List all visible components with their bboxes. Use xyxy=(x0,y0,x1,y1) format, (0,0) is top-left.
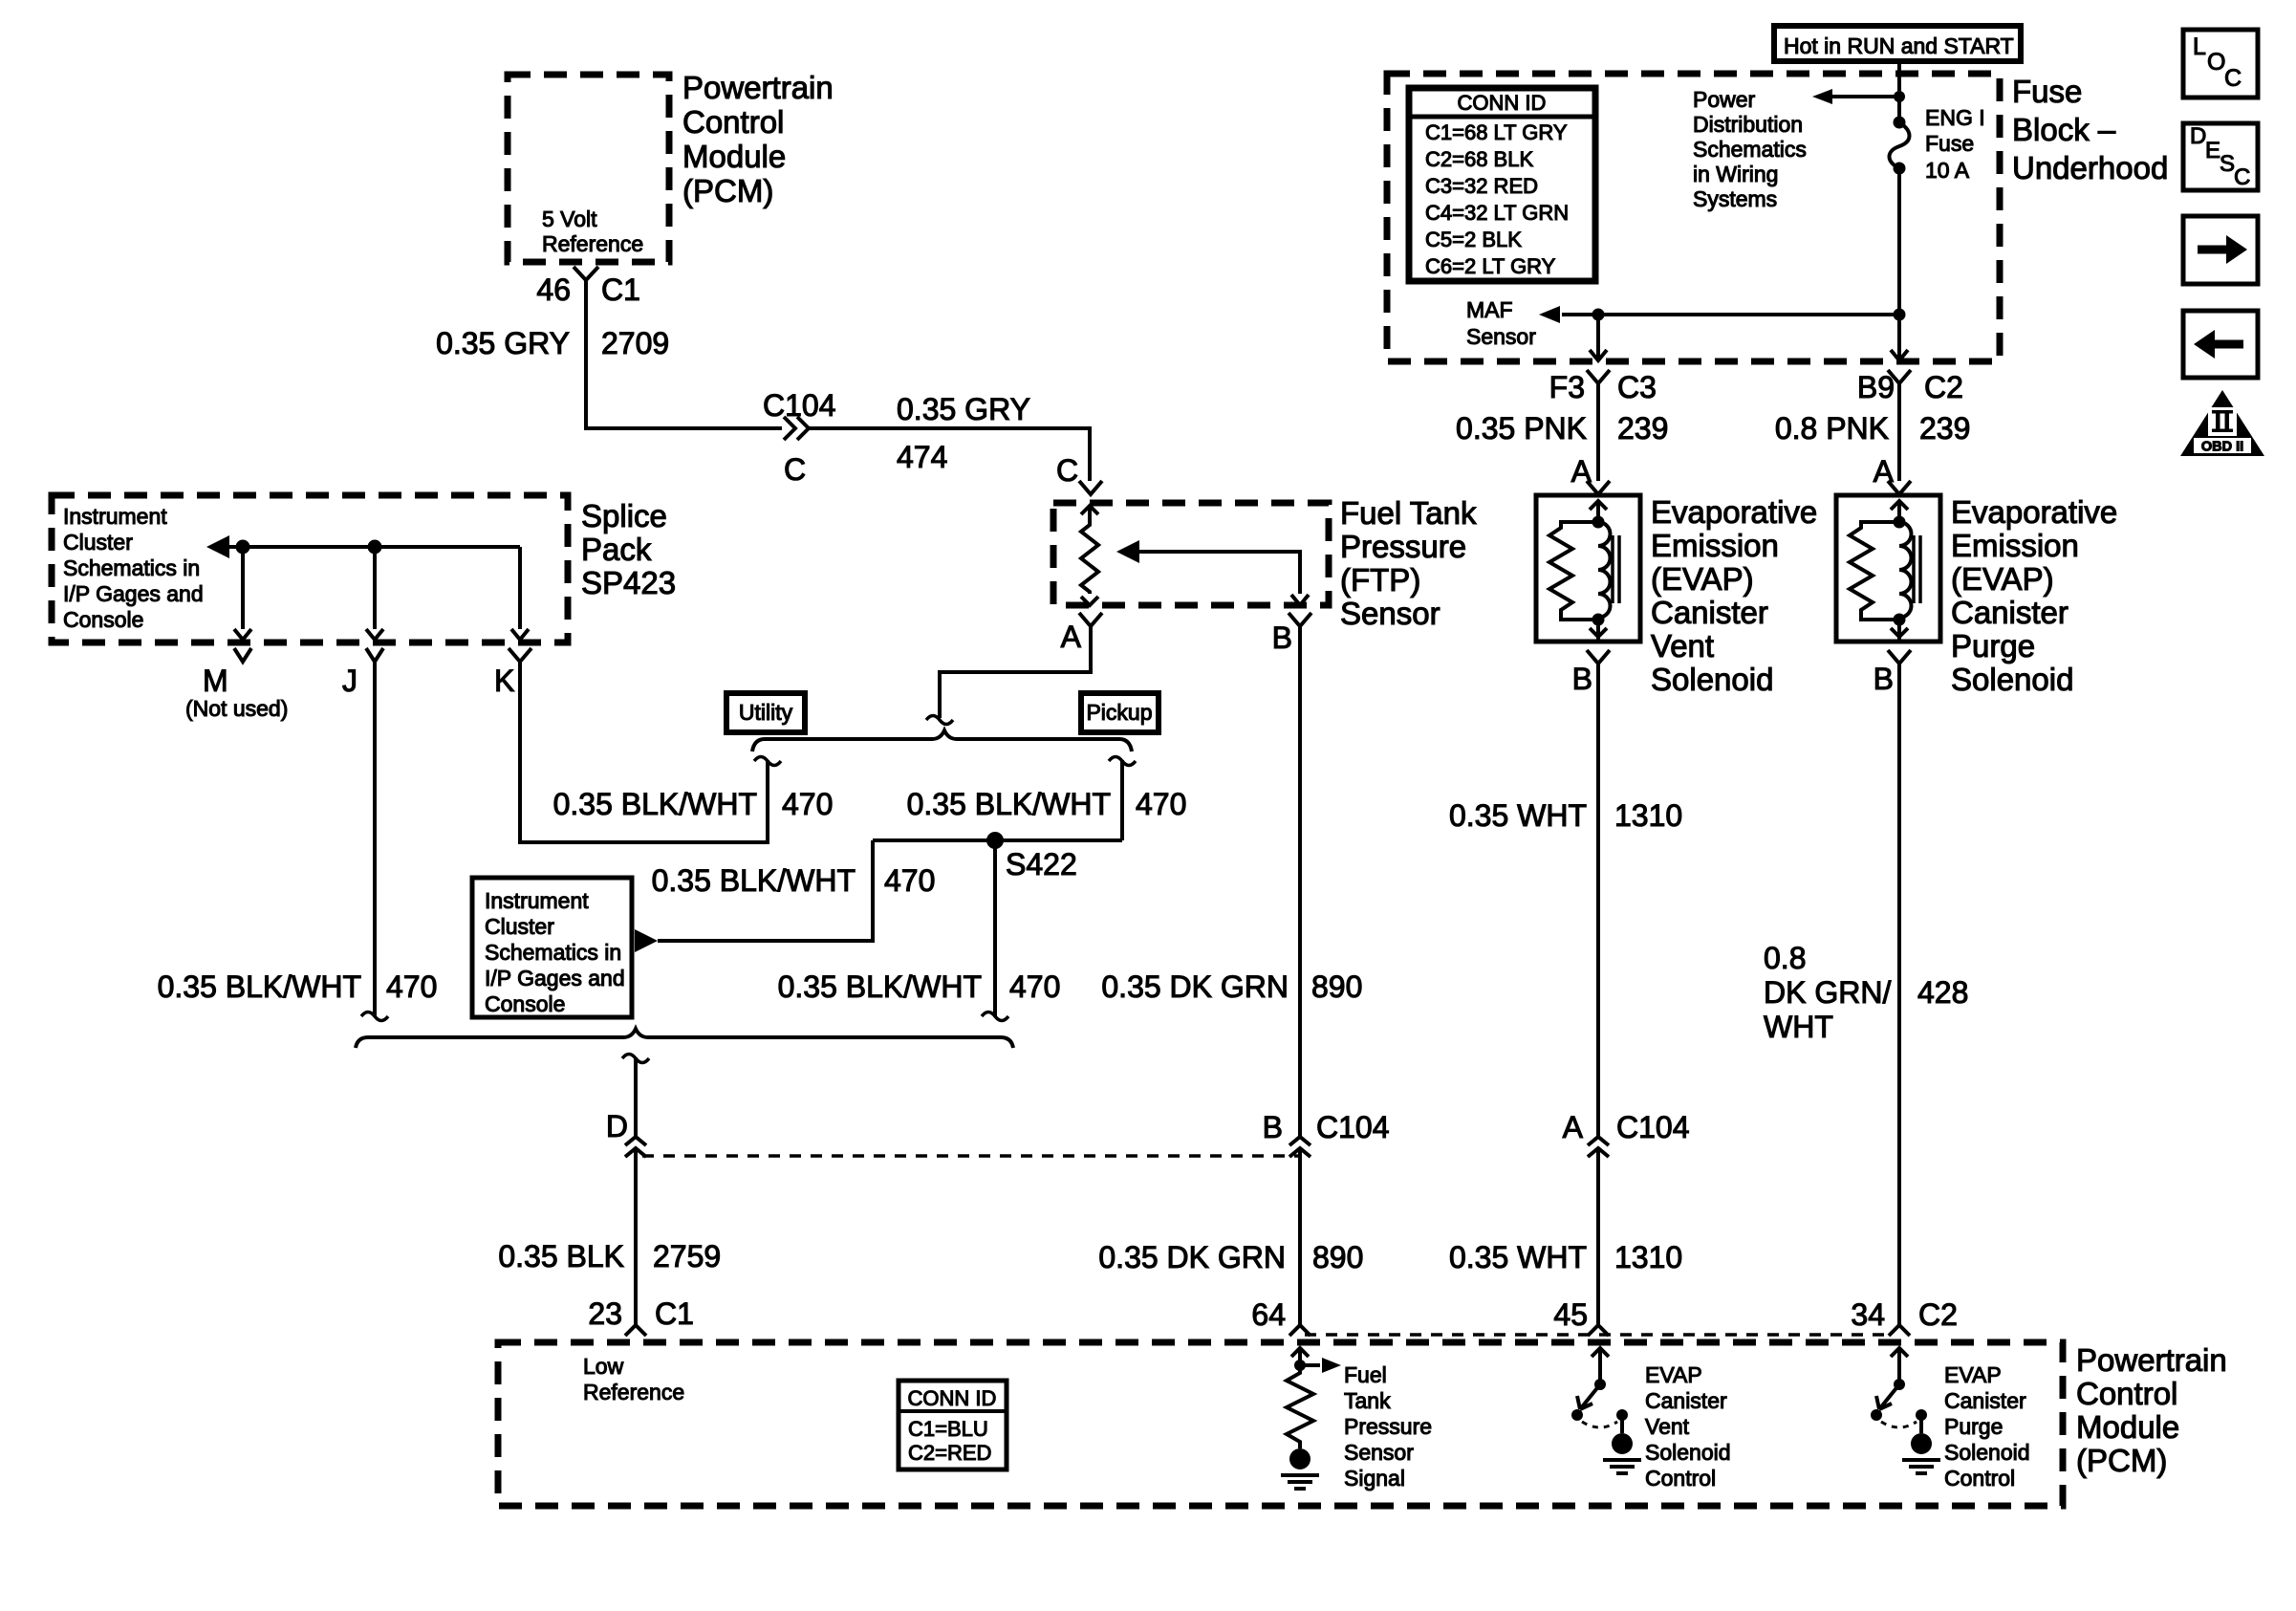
svg-text:C104: C104 xyxy=(763,388,836,423)
svg-text:Sensor: Sensor xyxy=(1344,1440,1414,1465)
svg-text:Reference: Reference xyxy=(542,231,643,256)
svg-text:C5=2 BLK: C5=2 BLK xyxy=(1425,228,1522,251)
svg-text:EVAP: EVAP xyxy=(1645,1362,1702,1387)
svg-text:(FTP): (FTP) xyxy=(1340,562,1420,598)
svg-text:45: 45 xyxy=(1553,1297,1588,1332)
svg-text:Fuse: Fuse xyxy=(2012,74,2082,109)
svg-text:470: 470 xyxy=(386,969,437,1004)
svg-text:(Not used): (Not used) xyxy=(185,696,288,721)
svg-text:Vent: Vent xyxy=(1651,628,1714,664)
svg-text:Schematics in: Schematics in xyxy=(485,940,621,965)
svg-text:Console: Console xyxy=(63,607,143,632)
svg-text:Module: Module xyxy=(682,139,786,174)
svg-text:0.35 BLK/WHT: 0.35 BLK/WHT xyxy=(158,969,361,1004)
svg-text:0.35 PNK: 0.35 PNK xyxy=(1456,411,1587,446)
svg-text:428: 428 xyxy=(1917,975,1968,1010)
svg-text:Distribution: Distribution xyxy=(1693,112,1803,137)
svg-text:Cluster: Cluster xyxy=(63,530,133,555)
svg-text:0.35 GRY: 0.35 GRY xyxy=(436,326,570,360)
svg-text:C3: C3 xyxy=(1617,370,1657,404)
svg-text:A: A xyxy=(1061,620,1082,654)
svg-text:Instrument: Instrument xyxy=(485,888,589,913)
svg-text:SP423: SP423 xyxy=(581,565,676,600)
svg-text:0.35 DK GRN: 0.35 DK GRN xyxy=(1101,969,1289,1004)
svg-text:470: 470 xyxy=(1136,787,1186,821)
svg-text:Vent: Vent xyxy=(1645,1414,1690,1439)
svg-text:(EVAP): (EVAP) xyxy=(1951,561,2054,597)
svg-text:10 A: 10 A xyxy=(1925,158,1970,183)
svg-text:WHT: WHT xyxy=(1764,1010,1833,1044)
svg-text:Pack: Pack xyxy=(581,532,652,567)
svg-text:J: J xyxy=(342,664,357,698)
svg-text:474: 474 xyxy=(897,440,947,474)
svg-text:Splice: Splice xyxy=(581,498,667,533)
svg-text:B: B xyxy=(1874,662,1894,696)
svg-text:C1: C1 xyxy=(655,1296,694,1331)
svg-text:23: 23 xyxy=(588,1296,622,1331)
svg-text:B: B xyxy=(1572,662,1592,696)
svg-text:I/P Gages and: I/P Gages and xyxy=(63,581,204,606)
svg-text:0.35 BLK: 0.35 BLK xyxy=(498,1239,624,1274)
svg-text:Solenoid: Solenoid xyxy=(1651,662,1773,697)
svg-text:Power: Power xyxy=(1693,87,1756,112)
svg-text:Module: Module xyxy=(2076,1409,2179,1445)
svg-text:CONN ID: CONN ID xyxy=(1458,91,1547,115)
svg-text:Fuse: Fuse xyxy=(1925,131,1974,156)
svg-text:0.35 BLK/WHT: 0.35 BLK/WHT xyxy=(553,787,757,821)
svg-text:470: 470 xyxy=(1009,969,1060,1004)
svg-text:Evaporative: Evaporative xyxy=(1951,494,2117,530)
svg-text:Fuel: Fuel xyxy=(1344,1362,1387,1387)
svg-text:0.35 DK GRN: 0.35 DK GRN xyxy=(1098,1240,1286,1274)
svg-text:0.35 GRY: 0.35 GRY xyxy=(897,392,1030,426)
svg-text:Emission: Emission xyxy=(1651,528,1779,563)
svg-text:0.35 WHT: 0.35 WHT xyxy=(1449,798,1587,833)
svg-text:2759: 2759 xyxy=(653,1239,721,1274)
svg-text:Schematics: Schematics xyxy=(1693,137,1807,162)
svg-text:0.35 BLK/WHT: 0.35 BLK/WHT xyxy=(778,969,982,1004)
svg-text:O: O xyxy=(2207,49,2225,76)
svg-text:OBD II: OBD II xyxy=(2201,440,2243,455)
svg-text:S: S xyxy=(2220,151,2235,177)
svg-text:(EVAP): (EVAP) xyxy=(1651,561,1754,597)
svg-text:(PCM): (PCM) xyxy=(2076,1443,2167,1478)
svg-text:890: 890 xyxy=(1312,1240,1363,1274)
svg-text:1310: 1310 xyxy=(1614,798,1682,833)
svg-text:Sensor: Sensor xyxy=(1340,596,1440,631)
svg-text:Canister: Canister xyxy=(1951,595,2069,630)
svg-text:Canister: Canister xyxy=(1651,595,1768,630)
svg-text:D: D xyxy=(606,1109,628,1143)
svg-text:ENG I: ENG I xyxy=(1925,105,1985,130)
svg-text:Control: Control xyxy=(682,104,784,140)
svg-text:A: A xyxy=(1563,1110,1584,1144)
svg-text:1310: 1310 xyxy=(1614,1240,1682,1274)
svg-text:Console: Console xyxy=(485,991,565,1016)
svg-text:A: A xyxy=(1571,454,1592,489)
svg-text:Purge: Purge xyxy=(1951,628,2035,664)
svg-text:239: 239 xyxy=(1617,411,1668,446)
svg-text:Solenoid: Solenoid xyxy=(1951,662,2073,697)
svg-text:C2=RED: C2=RED xyxy=(908,1441,991,1465)
svg-text:0.8: 0.8 xyxy=(1764,941,1806,975)
svg-text:0.8 PNK: 0.8 PNK xyxy=(1775,411,1889,446)
svg-text:5 Volt: 5 Volt xyxy=(542,207,597,231)
svg-text:Control: Control xyxy=(2076,1376,2177,1411)
svg-text:I/P Gages and: I/P Gages and xyxy=(485,966,625,991)
svg-text:C3=32 RED: C3=32 RED xyxy=(1425,174,1538,198)
svg-text:34: 34 xyxy=(1851,1297,1885,1332)
svg-text:239: 239 xyxy=(1919,411,1970,446)
svg-text:Pickup: Pickup xyxy=(1086,700,1152,725)
svg-text:890: 890 xyxy=(1311,969,1362,1004)
svg-text:Instrument: Instrument xyxy=(63,504,167,529)
svg-text:Powertrain: Powertrain xyxy=(2076,1342,2227,1378)
svg-text:470: 470 xyxy=(884,863,935,898)
svg-text:K: K xyxy=(494,664,514,698)
svg-text:2709: 2709 xyxy=(601,326,669,360)
svg-text:C1=68 LT GRY: C1=68 LT GRY xyxy=(1425,120,1568,144)
svg-text:Pressure: Pressure xyxy=(1340,529,1466,564)
svg-text:0.35 WHT: 0.35 WHT xyxy=(1449,1240,1587,1274)
svg-text:MAF: MAF xyxy=(1466,297,1513,322)
svg-text:C104: C104 xyxy=(1316,1110,1390,1144)
svg-text:C6=2 LT GRY: C6=2 LT GRY xyxy=(1425,254,1556,278)
svg-text:Solenoid: Solenoid xyxy=(1944,1440,2030,1465)
svg-text:A: A xyxy=(1874,454,1895,489)
svg-text:C2: C2 xyxy=(1918,1297,1958,1332)
svg-text:0.35 BLK/WHT: 0.35 BLK/WHT xyxy=(652,863,856,898)
svg-text:Tank: Tank xyxy=(1344,1388,1391,1413)
svg-text:B: B xyxy=(1263,1110,1283,1144)
svg-text:0.35 BLK/WHT: 0.35 BLK/WHT xyxy=(907,787,1111,821)
svg-text:Block –: Block – xyxy=(2012,112,2116,147)
svg-text:F3: F3 xyxy=(1549,370,1585,404)
svg-text:L: L xyxy=(2193,33,2206,60)
svg-text:(PCM): (PCM) xyxy=(682,173,773,208)
svg-text:C4=32 LT GRN: C4=32 LT GRN xyxy=(1425,201,1569,225)
svg-text:in Wiring: in Wiring xyxy=(1693,162,1778,186)
svg-text:C104: C104 xyxy=(1616,1110,1690,1144)
svg-text:D: D xyxy=(2190,123,2206,149)
svg-text:Canister: Canister xyxy=(1944,1388,2026,1413)
svg-text:C2=68 BLK: C2=68 BLK xyxy=(1425,147,1533,171)
svg-text:Fuel Tank: Fuel Tank xyxy=(1340,495,1477,531)
svg-text:S422: S422 xyxy=(1006,847,1077,882)
svg-text:Utility: Utility xyxy=(739,700,793,725)
svg-text:E: E xyxy=(2205,138,2220,163)
svg-text:Emission: Emission xyxy=(1951,528,2079,563)
svg-text:C: C xyxy=(1056,453,1078,488)
svg-text:Hot in RUN and START: Hot in RUN and START xyxy=(1784,33,2014,58)
svg-text:CONN ID: CONN ID xyxy=(908,1386,997,1410)
svg-text:B9: B9 xyxy=(1857,370,1895,404)
svg-text:Canister: Canister xyxy=(1645,1388,1727,1413)
svg-text:C1=BLU: C1=BLU xyxy=(908,1417,988,1441)
svg-text:B: B xyxy=(1272,620,1292,655)
svg-text:470: 470 xyxy=(782,787,833,821)
svg-text:C: C xyxy=(2224,65,2242,92)
svg-text:DK GRN/: DK GRN/ xyxy=(1764,975,1891,1010)
svg-text:Control: Control xyxy=(1944,1466,2015,1491)
svg-text:64: 64 xyxy=(1251,1297,1286,1332)
svg-text:C: C xyxy=(784,452,806,487)
svg-text:Control: Control xyxy=(1645,1466,1716,1491)
svg-text:Underhood: Underhood xyxy=(2012,150,2168,185)
svg-text:Solenoid: Solenoid xyxy=(1645,1440,1731,1465)
svg-text:C: C xyxy=(2234,164,2250,190)
svg-text:Signal: Signal xyxy=(1344,1466,1405,1491)
svg-text:M: M xyxy=(203,664,228,698)
svg-text:Evaporative: Evaporative xyxy=(1651,494,1817,530)
svg-text:EVAP: EVAP xyxy=(1944,1362,2002,1387)
svg-text:Schematics in: Schematics in xyxy=(63,555,200,580)
svg-text:Systems: Systems xyxy=(1693,186,1777,211)
svg-text:C2: C2 xyxy=(1924,370,1963,404)
svg-text:Powertrain: Powertrain xyxy=(682,70,834,105)
svg-text:C1: C1 xyxy=(601,272,640,307)
svg-text:Pressure: Pressure xyxy=(1344,1414,1432,1439)
svg-text:Sensor: Sensor xyxy=(1466,324,1536,349)
svg-text:Low: Low xyxy=(583,1354,624,1379)
svg-text:Reference: Reference xyxy=(583,1380,684,1404)
svg-text:Cluster: Cluster xyxy=(485,914,554,939)
svg-text:46: 46 xyxy=(536,272,571,307)
svg-text:Purge: Purge xyxy=(1944,1414,2003,1439)
